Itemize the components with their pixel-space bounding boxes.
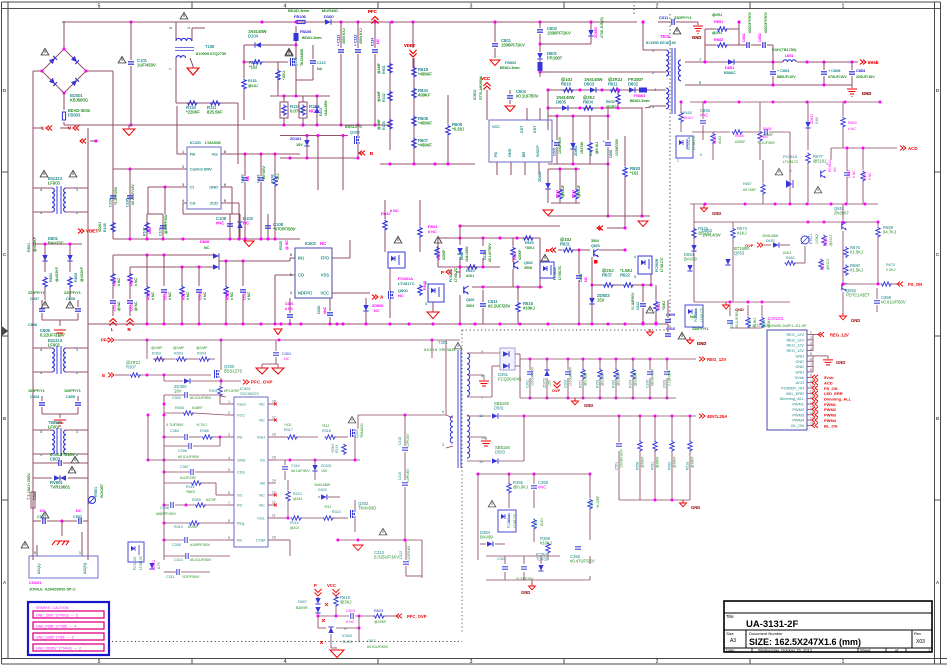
svg-text:+ C111: + C111 [337, 35, 341, 46]
svg-text:X03: X03 [916, 639, 925, 645]
svg-text:4: 4 [290, 291, 292, 295]
svg-text:ZD651: ZD651 [810, 114, 814, 124]
svg-text:R612: R612 [556, 190, 560, 198]
svg-text:ZD606: ZD606 [372, 304, 383, 308]
svg-text:#1KJ: #1KJ [718, 136, 722, 144]
svg-text:GND: GND [795, 369, 804, 374]
svg-text:NC: NC [309, 109, 315, 114]
svg-text:PWM2: PWM2 [824, 407, 837, 412]
svg-text:@1MF: @1MF [377, 118, 381, 130]
svg-text:IN1: IN1 [298, 256, 305, 261]
svg-text:4: 4 [810, 347, 812, 351]
svg-text:@1MF: @1MF [173, 346, 185, 350]
svg-text:Q653: Q653 [734, 251, 745, 256]
svg-text:C114: C114 [371, 38, 375, 46]
svg-text:*499KF: *499KF [418, 121, 432, 126]
svg-text:R621: R621 [657, 302, 661, 310]
svg-text:150UF/160V: 150UF/160V [620, 448, 624, 468]
svg-text:@402KF: @402KF [80, 266, 84, 282]
svg-text:C363: C363 [663, 380, 667, 388]
svg-text:D100: D100 [324, 14, 334, 19]
svg-text:12: 12 [479, 413, 483, 418]
svg-text:R309: R309 [192, 498, 201, 502]
svg-text:REG_12V: REG_12V [830, 333, 849, 338]
svg-text:C185: C185 [126, 198, 130, 207]
svg-text:R313: R313 [293, 492, 302, 496]
svg-text:*2.2UF/25V: *2.2UF/25V [114, 186, 118, 205]
svg-text:6: 6 [810, 357, 812, 361]
svg-text:R632: R632 [606, 100, 615, 104]
svg-text:NC: NC [376, 38, 380, 44]
svg-text:1: 1 [228, 400, 230, 404]
svg-text:FB106: FB106 [294, 14, 307, 19]
svg-text:4: 4 [634, 255, 636, 259]
svg-text:2: 2 [76, 211, 78, 215]
svg-text:1500PF/1KV: 1500PF/1KV [501, 43, 525, 48]
svg-text:#10KJ: #10KJ [523, 306, 535, 311]
svg-text:1: 1 [652, 48, 654, 53]
svg-text:BL_ON: BL_ON [824, 423, 838, 428]
svg-text:*560J: *560J [186, 490, 195, 494]
svg-text:1: 1 [790, 169, 792, 173]
svg-text:#NC: #NC [323, 307, 327, 314]
svg-text:C310: C310 [174, 558, 183, 562]
svg-text:1N4148W: 1N4148W [314, 483, 331, 487]
svg-text:@220PF/50V: @220PF/50V [164, 213, 168, 234]
svg-text:KBJ608G: KBJ608G [70, 98, 88, 103]
svg-text:RT601: RT601 [809, 234, 813, 244]
svg-text:D581: D581 [494, 406, 505, 411]
svg-text:IC600: IC600 [342, 634, 352, 638]
svg-text:ZD351: ZD351 [543, 377, 547, 388]
svg-text:15V: 15V [597, 298, 605, 303]
svg-text:Dimming_ALL: Dimming_ALL [780, 396, 805, 401]
svg-text:GND: GND [237, 458, 246, 463]
svg-text:C651: C651 [742, 33, 746, 42]
svg-text:LTV817C: LTV817C [454, 267, 458, 282]
svg-text:1N4746: 1N4746 [580, 142, 584, 154]
svg-text:@10J: @10J [290, 526, 299, 530]
svg-text:TR901: TR901 [94, 487, 98, 498]
svg-text:K: K [700, 152, 703, 157]
svg-text:3904: 3904 [466, 304, 474, 308]
svg-text:# NC: # NC [186, 292, 190, 300]
svg-text:T301: T301 [438, 340, 448, 345]
svg-text:RC: RC [237, 503, 243, 508]
svg-text:R653: R653 [848, 121, 857, 125]
svg-text:5.6V: 5.6V [815, 116, 819, 124]
svg-text:D303: D303 [318, 488, 327, 492]
svg-text:R568: R568 [636, 462, 640, 470]
svg-text:PWM2: PWM2 [792, 407, 804, 412]
svg-text:TK8A60D: TK8A60D [358, 506, 376, 511]
svg-text:4: 4 [182, 199, 184, 203]
svg-text:VDET: VDET [404, 43, 416, 48]
svg-text:R302: R302 [152, 352, 161, 356]
svg-text:Title: Title [726, 614, 734, 619]
svg-text:C807: C807 [30, 297, 39, 301]
svg-text:9: 9 [699, 80, 701, 85]
svg-text:810909 ATQ2730: 810909 ATQ2730 [196, 51, 227, 56]
svg-text:GND: GND [712, 211, 721, 216]
svg-text:#680PF/50V: #680PF/50V [156, 512, 177, 516]
svg-text:5: 5 [224, 199, 226, 203]
svg-text:D605: D605 [460, 252, 464, 260]
svg-text:C804: C804 [30, 395, 39, 399]
svg-text:B560C: B560C [724, 70, 736, 75]
svg-text:3: 3 [634, 275, 636, 279]
svg-text:8.7V: 8.7V [157, 561, 161, 569]
svg-text:NDFPO: NDFPO [298, 291, 312, 296]
svg-text:#NC: #NC [216, 221, 224, 226]
svg-text:REG_12V: REG_12V [786, 337, 804, 342]
svg-text:R306: R306 [175, 406, 184, 410]
svg-text:0.22UF/310V: 0.22UF/310V [40, 333, 65, 338]
svg-text:PC301A: PC301A [507, 514, 511, 528]
svg-text:8: 8 [224, 150, 226, 154]
svg-text:R312: R312 [186, 485, 195, 489]
svg-text:NC: NC [246, 175, 250, 181]
svg-text:C610: C610 [483, 252, 487, 260]
svg-text:PC651A: PC651A [687, 136, 691, 150]
svg-text:FPO: FPO [321, 256, 329, 261]
svg-text:GND_150V 1774V23 --- 5: GND_150V 1774V23 --- 5 [36, 613, 78, 617]
svg-text:5: 5 [98, 659, 101, 665]
svg-text:R581: R581 [651, 462, 655, 470]
svg-text:470UF/10V: 470UF/10V [828, 75, 847, 79]
svg-text:B: B [546, 248, 549, 253]
svg-text:C622: C622 [243, 292, 247, 300]
svg-text:8: 8 [810, 368, 812, 372]
svg-text:1: 1 [187, 27, 191, 29]
svg-text:VDET: VDET [86, 229, 98, 234]
svg-text:#0.01UF/50V: #0.01UF/50V [190, 558, 212, 562]
svg-text:JCTC 12002W90-2x9P-L-S1-HF: JCTC 12002W90-2x9P-L-S1-HF [752, 324, 807, 328]
svg-text:R518: R518 [686, 462, 690, 470]
svg-text:C613: C613 [579, 274, 583, 282]
svg-text:FB602: FB602 [505, 61, 516, 65]
svg-text:220PF/Y1: 220PF/Y1 [64, 291, 81, 295]
svg-text:#0.01UF/50V: #0.01UF/50V [881, 300, 906, 305]
svg-text:ZD605: ZD605 [538, 171, 542, 182]
svg-text:TVR10661: TVR10661 [50, 485, 71, 490]
svg-text:#NC: #NC [538, 485, 546, 490]
svg-text:C115: C115 [257, 175, 261, 183]
svg-text:0.075J: 0.075J [290, 109, 303, 114]
svg-text:JOWLE A2942WR2-5P-C: JOWLE A2942WR2-5P-C [29, 587, 76, 592]
svg-text:#P1.87KF: #P1.87KF [224, 389, 240, 393]
svg-text:R672: R672 [437, 252, 441, 260]
svg-text:@ NC: @ NC [117, 301, 121, 311]
svg-text:PFC_OVP: PFC_OVP [407, 614, 427, 619]
svg-text:*499KF: *499KF [418, 143, 432, 148]
svg-text:R610: R610 [561, 82, 572, 87]
svg-text:@10J: @10J [248, 84, 258, 88]
svg-text:@29J: @29J [712, 12, 722, 17]
svg-text:*20KJ: *20KJ [525, 246, 535, 250]
svg-text:REG_12V: REG_12V [786, 343, 804, 348]
svg-text:GND: GND [735, 307, 744, 312]
svg-text:Document Number: Document Number [749, 631, 783, 636]
svg-text:6: 6 [442, 409, 444, 414]
svg-text:2: 2 [656, 4, 659, 10]
svg-text:LTV817C: LTV817C [692, 135, 696, 150]
svg-text:NC: NC [284, 357, 290, 361]
svg-text:@39KF: @39KF [656, 456, 660, 468]
svg-text:R670: R670 [886, 263, 895, 267]
svg-text:11: 11 [272, 514, 276, 518]
svg-text:Vsen: Vsen [237, 402, 246, 407]
svg-text:VGH: VGH [257, 435, 266, 440]
svg-text:B: B [3, 416, 6, 421]
svg-text:@510J: @510J [826, 259, 830, 270]
svg-text:7: 7 [810, 363, 812, 367]
svg-text:#3300PF/50V: #3300PF/50V [748, 12, 752, 33]
svg-text:#0.01UF/50V: #0.01UF/50V [178, 455, 200, 459]
svg-text:R629: R629 [130, 278, 134, 286]
svg-text:8193F: 8193F [188, 525, 199, 529]
svg-text:R107: R107 [143, 227, 147, 236]
svg-text:4: 4 [284, 4, 287, 10]
svg-text:#1KJ: #1KJ [466, 274, 474, 278]
svg-text:48V/1.25A: 48V/1.25A [707, 414, 727, 419]
svg-text:PWM4: PWM4 [792, 418, 805, 423]
svg-text:#1KJ: #1KJ [783, 251, 791, 255]
svg-text:#9.76KF: #9.76KF [743, 188, 756, 192]
svg-text:*0.1UF/50V: *0.1UF/50V [757, 141, 776, 145]
svg-text:GND: GND [508, 148, 512, 157]
svg-text:R671: R671 [821, 262, 825, 270]
svg-text:R623: R623 [374, 609, 383, 613]
svg-text:C654: C654 [856, 69, 865, 73]
svg-text:811935 EE16140: 811935 EE16140 [646, 40, 677, 45]
svg-text:18V: 18V [174, 389, 182, 394]
svg-text:R652: R652 [714, 37, 723, 42]
svg-text:R214: R214 [290, 521, 299, 525]
svg-text:GND: GND [691, 505, 700, 510]
svg-text:R658: R658 [735, 134, 744, 138]
svg-text:*10KJ: *10KJ [282, 70, 286, 80]
svg-text:C665: C665 [609, 150, 613, 158]
svg-text:1500PF/1KV: 1500PF/1KV [547, 31, 571, 36]
svg-text:@29J: @29J [712, 30, 722, 35]
svg-text:1N4148W: 1N4148W [762, 234, 779, 238]
svg-text:15V: 15V [321, 469, 328, 473]
svg-text:LF903: LF903 [48, 181, 61, 186]
svg-text:# NC: # NC [117, 278, 121, 286]
svg-text:VB: VB [260, 481, 266, 486]
svg-text:# NC: # NC [247, 292, 251, 300]
svg-text:R611: R611 [608, 82, 618, 87]
svg-text:NC: NC [833, 167, 837, 172]
svg-text:A3: A3 [730, 638, 736, 644]
svg-text:C609: C609 [199, 292, 203, 300]
svg-text:#20KF: #20KF [518, 250, 522, 260]
svg-text:15V: 15V [548, 379, 552, 386]
svg-text:4: 4 [40, 188, 42, 192]
svg-text:GND: GND [584, 403, 593, 408]
svg-text:C367: C367 [180, 465, 189, 469]
svg-text:R802: R802 [49, 273, 53, 282]
svg-text:C615: C615 [346, 609, 355, 613]
svg-text:@9.1KJ: @9.1KJ [595, 142, 599, 154]
svg-text:# NC: # NC [134, 278, 138, 286]
svg-text:LTA1008: LTA1008 [205, 140, 221, 145]
svg-text:100KJ: 100KJ [815, 234, 819, 244]
svg-text:C617: C617 [367, 639, 376, 643]
svg-text:R168: R168 [271, 174, 275, 183]
svg-text:+ C112: + C112 [354, 35, 358, 46]
svg-text:C618: C618 [164, 292, 168, 300]
svg-text:*10J: *10J [249, 65, 257, 70]
svg-text:# NC: # NC [203, 292, 207, 300]
svg-text:AC(N): AC(N) [82, 562, 87, 574]
svg-text:OVP: OVP [552, 388, 561, 393]
svg-text:#22KJ: #22KJ [98, 222, 102, 232]
svg-text:COM: COM [256, 538, 265, 543]
svg-text:1N4148W: 1N4148W [465, 246, 469, 262]
svg-text:1N4148W: 1N4148W [324, 100, 328, 116]
svg-text:A: A [598, 226, 601, 231]
svg-text:Q102: Q102 [294, 57, 298, 66]
svg-text:100PF/Y1: 100PF/Y1 [28, 389, 45, 393]
svg-text:ZCD: ZCD [210, 201, 218, 206]
svg-text:C808: C808 [66, 297, 75, 301]
svg-text:ZD601: ZD601 [574, 145, 578, 156]
svg-text:BKL_ERR: BKL_ERR [786, 391, 804, 396]
svg-text:PC301M: PC301M [133, 557, 137, 570]
svg-text:#1KJ: #1KJ [737, 231, 747, 236]
svg-text:14: 14 [272, 479, 276, 483]
svg-text:R622: R622 [620, 273, 631, 278]
svg-text:3: 3 [40, 371, 42, 375]
svg-text:1: 1 [76, 348, 78, 352]
svg-text:BAV23C: BAV23C [48, 241, 64, 246]
svg-text:2: 2 [810, 336, 812, 340]
svg-text:GND: GND [697, 341, 706, 346]
svg-text:#0.1UF/50V: #0.1UF/50V [488, 243, 492, 262]
svg-text:C663: C663 [847, 170, 851, 178]
svg-text:4: 4 [826, 162, 828, 166]
svg-text:CN101: CN101 [29, 580, 42, 585]
svg-text:R631: R631 [560, 242, 571, 247]
svg-text:C305: C305 [172, 543, 181, 547]
svg-text:R641: R641 [428, 224, 438, 229]
svg-text:GND: GND [521, 590, 530, 595]
svg-text:@ NC: @ NC [134, 301, 138, 311]
svg-text:GND: GND [795, 359, 804, 364]
svg-text:C652: C652 [758, 33, 762, 42]
svg-text:C306: C306 [178, 449, 187, 453]
svg-text:Wednesday, October 16, 2013: Wednesday, October 16, 2013 [758, 648, 813, 653]
svg-text:D605: D605 [556, 100, 567, 105]
svg-text:1: 1 [182, 150, 184, 154]
svg-text:#2.2UF/26V: #2.2UF/26V [488, 304, 511, 309]
svg-text:L651: L651 [785, 53, 794, 58]
svg-text:10P/1KV: 10P/1KV [406, 468, 410, 482]
svg-text:GND: GND [862, 91, 871, 96]
svg-text:NC: NC [374, 309, 380, 313]
svg-text:NC: NC [320, 241, 326, 246]
svg-text:6: 6 [228, 491, 230, 495]
svg-text:R627: R627 [182, 292, 186, 300]
svg-text:#0.1UF/50V: #0.1UF/50V [516, 94, 539, 99]
svg-text:Dimming_ALL: Dimming_ALL [824, 397, 852, 402]
svg-text:5Vsb: 5Vsb [824, 375, 834, 380]
svg-text:@0.6KJ: @0.6KJ [513, 485, 528, 490]
svg-text:# NC: # NC [285, 307, 294, 311]
svg-text:@1MF: @1MF [151, 346, 163, 350]
svg-text:C605: C605 [553, 148, 557, 156]
svg-text:C011: C011 [659, 15, 669, 20]
svg-text:FB: FB [494, 152, 498, 157]
svg-text:*10J: *10J [284, 423, 292, 427]
svg-text:TL431: TL431 [342, 640, 353, 644]
svg-text:TL431: TL431 [536, 557, 549, 562]
svg-text:S/OCP: S/OCP [536, 145, 540, 157]
svg-text:R617: R617 [589, 148, 593, 156]
svg-text:R317: R317 [284, 428, 293, 432]
svg-text:R681: R681 [713, 136, 717, 144]
svg-text:B: B [102, 373, 105, 378]
svg-text:NC: NC [76, 509, 82, 513]
svg-text:R307: R307 [126, 365, 137, 370]
svg-text:7: 7 [228, 501, 230, 505]
svg-text:C364: C364 [170, 429, 179, 433]
svg-text:VS: VS [260, 458, 266, 463]
svg-text:LTV817C: LTV817C [398, 281, 415, 286]
svg-text:C616: C616 [130, 303, 134, 311]
svg-text:PC960B: PC960B [655, 258, 659, 272]
svg-text:# NC: # NC [151, 292, 155, 300]
svg-text:@18J: @18J [293, 497, 302, 501]
svg-text:R103: R103 [382, 121, 386, 130]
svg-text:LTV817C: LTV817C [558, 265, 562, 280]
svg-text:R655: R655 [683, 111, 692, 115]
svg-text:TK15A60D: TK15A60D [300, 48, 304, 66]
svg-text:NC: NC [259, 402, 265, 407]
svg-text:C318: C318 [398, 437, 402, 445]
svg-text:C009: C009 [666, 313, 675, 317]
svg-text:100P/1KV: 100P/1KV [407, 545, 411, 561]
svg-text:2: 2 [76, 371, 78, 375]
svg-text:# NC: # NC [230, 292, 234, 300]
svg-text:GND_G685 17/5B --- 3: GND_G685 17/5B --- 3 [36, 635, 74, 639]
svg-text:#3300PF/50V: #3300PF/50V [764, 12, 768, 33]
svg-text:8: 8 [481, 373, 483, 378]
svg-text:BEAD-3mm: BEAD-3mm [500, 66, 519, 70]
svg-text:330PF/Y1: 330PF/Y1 [692, 327, 708, 331]
svg-text:5: 5 [34, 551, 36, 555]
svg-text:GND_P685 17743D --- 4: GND_P685 17743D --- 4 [36, 624, 76, 628]
svg-text:4: 4 [40, 430, 42, 434]
svg-text:R369: R369 [590, 500, 594, 508]
svg-text:4.7UF/50V: 4.7UF/50V [166, 423, 184, 427]
svg-text:Q602: Q602 [524, 261, 533, 265]
svg-text:LF902: LF902 [48, 343, 61, 348]
svg-text:R651: R651 [714, 19, 723, 24]
svg-text:330PF/Y1: 330PF/Y1 [674, 15, 693, 20]
svg-text:3904: 3904 [591, 239, 599, 243]
svg-text:2.2KJ: 2.2KJ [886, 268, 896, 272]
svg-text:DST: DST [520, 125, 524, 133]
svg-text:@39KF: @39KF [673, 456, 677, 468]
svg-text:R637: R637 [602, 273, 613, 278]
svg-text:#NC: #NC [700, 113, 708, 118]
svg-text:@1MF: @1MF [377, 62, 381, 74]
svg-text:VCC: VCC [327, 583, 336, 588]
svg-text:@5.62F: @5.62F [561, 185, 565, 197]
